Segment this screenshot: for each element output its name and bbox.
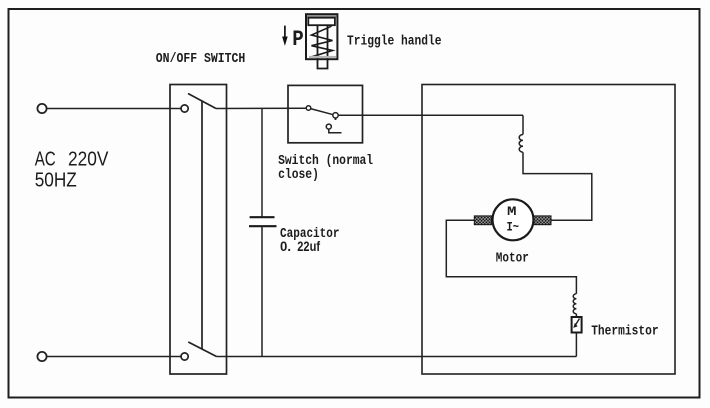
svg-text:AC: AC [35, 148, 56, 171]
label Switch (normal close) [278, 153, 373, 183]
wire: top terminal to switch S1 pole A [47, 108, 181, 110]
wire: capacitor top lead [261, 109, 263, 218]
trigger handle: bottom gray strip [309, 56, 336, 58]
inductor L1 (field coil) [519, 135, 523, 153]
switch SW2 (normal close) enclosure box [288, 85, 363, 142]
switch S1 enclosure box [170, 85, 227, 375]
trigger handle: spring [311, 26, 333, 57]
wire: capacitor bottom lead [261, 226, 263, 356]
svg-text:close): close) [278, 167, 319, 183]
switch SW2 common contact [306, 106, 311, 111]
switch S1 pole A blade [188, 94, 216, 109]
svg-text:220V: 220V [68, 148, 109, 171]
switch S1 pole A contact [181, 105, 188, 112]
svg-text:22uf: 22uf [297, 239, 320, 254]
arrow: pressure direction [282, 26, 288, 46]
svg-text:50HZ: 50HZ [35, 169, 77, 192]
svg-text:P: P [292, 26, 304, 52]
switch S1 pole B contact [181, 353, 188, 360]
wire: S1 pole A to trigger switch SW2 [216, 107, 306, 109]
switch S1 pole B blade [188, 342, 216, 357]
wire: bottom terminal to switch S1 pole B [47, 356, 181, 358]
trigger handle: plunger shaft [318, 25, 328, 68]
label AC 220V 50HZ [35, 148, 109, 192]
thermistor RT1 body [572, 317, 582, 333]
wire: L2 to thermistor RT1 [575, 314, 577, 317]
wire: down from top bend [522, 115, 524, 134]
wire: SW2 output to motor box bend [338, 114, 523, 116]
trigger handle: top gray strip [307, 15, 336, 17]
capacitor C1 plates [249, 217, 277, 226]
trigger handle: piston head [308, 18, 335, 26]
trigger handle symbol: body box [306, 14, 337, 59]
svg-text:I~: I~ [507, 219, 520, 234]
thermistor RT1 arrow mark [573, 319, 579, 328]
switch SW2 blade [311, 109, 334, 115]
inductor L2 (armature coil) [573, 294, 576, 314]
svg-text:Triggle handle: Triggle handle [347, 34, 442, 50]
wire: left brush to lower run [446, 220, 576, 293]
motor M1 body [493, 199, 534, 240]
switch SW2 closed contact [333, 113, 338, 118]
switch SW2 open contact [326, 124, 331, 129]
wire: SW2 open contact stub [329, 129, 342, 133]
switch S1 mechanical link [201, 101, 203, 349]
node: AC line terminal (top) [37, 104, 46, 113]
motor unit enclosure box [422, 85, 675, 375]
motor M1 right brush [534, 216, 551, 225]
motor M1 left brush [474, 216, 491, 225]
node: AC neutral terminal (bottom) [37, 352, 46, 361]
wire: L1 to right drop [523, 152, 592, 220]
label M I~ inside motor [507, 204, 520, 235]
label Capacitor 0.22uf [280, 226, 340, 254]
wire: bottom bus from S1 pole B to thermistor branch [217, 356, 577, 358]
svg-text:Motor: Motor [496, 251, 529, 267]
svg-text:0.: 0. [280, 239, 291, 254]
svg-text:M: M [507, 204, 517, 219]
svg-text:Thermistor: Thermistor [591, 324, 658, 340]
wire: thermistor to bottom bus [575, 333, 577, 357]
svg-text:ON/OFF SWITCH: ON/OFF SWITCH [156, 51, 246, 67]
